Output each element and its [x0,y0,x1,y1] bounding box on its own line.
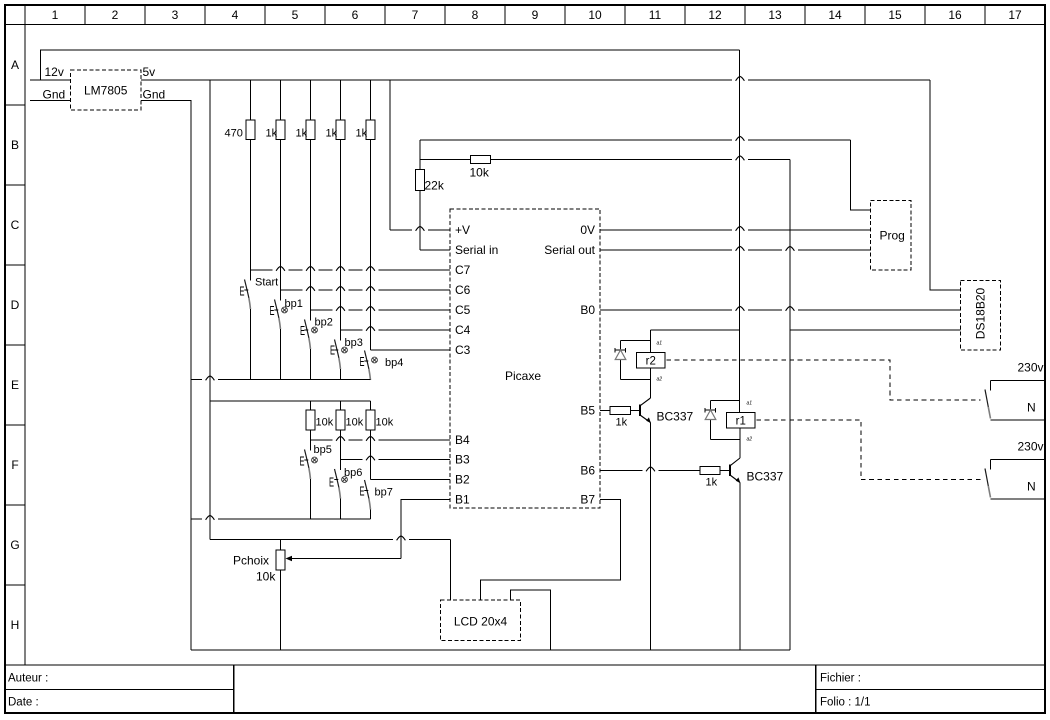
svg-text:10: 10 [588,8,602,22]
svg-text:230v: 230v [1018,361,1044,375]
wire B0 to DS18B20 [600,309,961,311]
svg-text:7: 7 [412,8,419,22]
svg-text:C: C [11,218,20,232]
wire 12v input [30,79,71,81]
wire 12v vertical bus [739,50,741,413]
svg-text:5v: 5v [143,65,156,79]
svg-text:+V: +V [455,223,470,237]
switch bp7 [360,480,393,519]
svg-text:1k: 1k [296,128,308,140]
svg-text:B0: B0 [580,303,595,317]
svg-text:LM7805: LM7805 [84,84,128,98]
svg-text:11: 11 [649,8,662,22]
svg-text:10k: 10k [470,166,490,180]
svg-text:Date :: Date : [8,697,39,709]
wire C4 net [341,329,451,331]
svg-text:14: 14 [828,8,842,22]
wire 10k to ground riser [491,156,791,650]
wire 5v feed to pull-down resistors [210,400,371,402]
svg-text:0V: 0V [580,223,595,237]
svg-text:E: E [270,303,275,318]
wire B4 net [311,439,451,441]
svg-text:BC337: BC337 [657,410,694,424]
diode D1 (flyback r1) [705,401,740,440]
connector Prog [871,201,912,271]
svg-text:Pchoix: Pchoix [233,554,269,568]
svg-text:E: E [360,354,365,369]
svg-text:1: 1 [52,8,59,22]
resistor R5 1k [356,80,376,350]
svg-text:A: A [11,58,19,72]
svg-text:13: 13 [768,8,782,22]
resistor R1 470 [225,80,256,270]
resistor R11 1k (Q1 base) [600,407,640,429]
svg-text:B1: B1 [455,493,470,507]
svg-text:DS18B20: DS18B20 [974,287,988,339]
wire mechanical link r1 to contact 2 (dashed) [757,420,981,480]
svg-text:Fichier :: Fichier : [820,673,861,685]
svg-text:bp6: bp6 [344,467,362,479]
wire 5v bus [141,76,961,290]
svg-text:B7: B7 [580,493,595,507]
svg-text:12: 12 [708,8,722,22]
resistor R12 1k (Q2 base) [600,467,730,489]
switch Start [240,270,279,380]
svg-text:6: 6 [352,8,359,22]
switch bp6 [329,460,362,520]
wire Q1 emitter to ground rail [650,423,652,651]
svg-text:Serial in: Serial in [455,243,498,257]
svg-text:1k: 1k [616,417,628,429]
transistor Q2 BC337 [730,458,784,484]
wire switch ground bus 2 [191,518,371,520]
wire Gnd from regulator to ground rail [141,101,191,651]
svg-text:B5: B5 [580,404,595,418]
resistor R4 1k [326,80,346,330]
diode D2 (flyback r2) [615,341,651,380]
relay r2 coil [637,353,666,369]
svg-text:bp5: bp5 [314,444,332,456]
svg-text:C7: C7 [455,263,471,277]
svg-text:230v: 230v [1018,440,1044,454]
wire serial network to Prog connector [420,136,871,210]
wire 12v to relay r2 [651,330,740,353]
svg-text:1k: 1k [706,477,718,489]
svg-text:Picaxe: Picaxe [505,369,541,383]
svg-text:F: F [11,458,18,472]
resistor R8 10k [366,401,394,480]
IC U2 Picaxe [450,209,600,508]
svg-text:C6: C6 [455,283,471,297]
svg-text:a1: a1 [657,341,663,347]
relay r1 coil [727,413,756,429]
svg-text:12v: 12v [45,65,64,79]
svg-text:Start: Start [255,277,278,289]
svg-text:a1: a1 [747,401,753,407]
svg-text:LCD 20x4: LCD 20x4 [454,615,508,629]
resistor R9 22k [416,140,445,250]
resistor R10 10k (serial) [420,156,491,180]
wire ground rail [191,649,790,651]
transistor Q1 BC337 [640,398,694,424]
wire r2 coil to Q1 collector [650,368,652,398]
svg-text:E: E [300,454,305,469]
svg-text:E: E [240,284,245,299]
potentiometer Pchoix 10k [233,540,401,651]
svg-text:B3: B3 [455,453,470,467]
switch bp1 [270,290,303,380]
svg-text:8: 8 [472,8,479,22]
svg-text:BC337: BC337 [747,470,784,484]
svg-text:470: 470 [225,128,243,140]
svg-text:1k: 1k [326,128,338,140]
wire C3 net [371,349,451,351]
svg-text:N: N [1027,480,1036,494]
svg-text:a2: a2 [747,437,753,443]
wire C6 net [281,289,451,291]
svg-text:B2: B2 [455,473,470,487]
wire ground to DS18B20 [790,329,961,331]
switch bp3 [330,330,363,380]
wire Serial out to Prog [600,249,871,251]
svg-text:B: B [11,138,19,152]
resistor R2 1k [266,80,286,290]
svg-text:B4: B4 [455,433,470,447]
svg-text:H: H [11,618,20,632]
svg-text:C4: C4 [455,323,471,337]
svg-text:1k: 1k [266,128,278,140]
wire 5v riser to pull-down bank and LCD [210,80,451,600]
resistor R3 1k [296,80,316,310]
svg-text:Gnd: Gnd [143,88,166,102]
sensor DS18B20 [961,281,1001,351]
svg-text:C5: C5 [455,303,471,317]
display LCD 20x4 [441,600,521,641]
svg-text:15: 15 [888,8,902,22]
wire 0V to Prog [600,229,871,231]
switch contact K1 (230v output 1) [985,381,1044,421]
svg-text:C3: C3 [455,343,471,357]
svg-text:a2: a2 [657,377,663,383]
wire C7 net [251,269,451,271]
switch contact K2 (230v output 2) [985,460,1044,500]
svg-text:16: 16 [948,8,962,22]
svg-text:D: D [11,298,20,312]
wire 12v top bus [30,50,740,80]
svg-text:10k: 10k [376,417,394,429]
resistor R6 10k [306,401,334,440]
svg-text:bp3: bp3 [345,337,363,349]
svg-text:10k: 10k [256,570,276,584]
svg-text:bp1: bp1 [285,298,303,310]
wire Q2 emitter to ground rail [739,483,741,651]
svg-text:E: E [329,475,334,490]
svg-text:bp7: bp7 [375,487,393,499]
wire mechanical link r2 to contact 1 (dashed) [667,360,981,400]
svg-text:4: 4 [232,8,239,22]
switch bp4 [360,351,404,381]
wire B7 to LCD [481,500,621,601]
wire B3 net [341,459,451,461]
switch bp2 [300,310,333,380]
switch bp5 [300,440,332,519]
wire Gnd input [30,100,71,102]
svg-text:3: 3 [172,8,179,22]
svg-text:Serial out: Serial out [544,243,595,257]
svg-text:5: 5 [292,8,299,22]
pin ticks Picaxe left [444,230,451,500]
wire B1 to potentiometer wiper [401,500,450,559]
svg-text:10k: 10k [346,417,364,429]
svg-text:E: E [11,378,19,392]
svg-text:22k: 22k [425,179,445,193]
wire 5v to +V pin [390,80,450,231]
svg-text:bp4: bp4 [385,357,403,369]
wire switch ground bus 1 [191,379,371,381]
wire LCD to ground rail [511,590,551,650]
svg-text:9: 9 [532,8,539,22]
pin ticks Picaxe right [600,230,607,500]
svg-text:17: 17 [1008,8,1022,22]
svg-text:E: E [360,484,365,499]
svg-text:Auteur :: Auteur : [8,673,48,685]
svg-text:1k: 1k [356,128,368,140]
svg-text:Prog: Prog [880,229,905,243]
svg-text:10k: 10k [316,417,334,429]
resistor R7 10k [336,401,364,460]
svg-text:r1: r1 [736,416,746,428]
svg-text:Folio : 1/1: Folio : 1/1 [820,697,871,709]
svg-text:N: N [1027,401,1036,415]
svg-text:B6: B6 [580,464,595,478]
svg-text:bp2: bp2 [315,317,333,329]
svg-text:Gnd: Gnd [43,88,66,102]
wire B2 net [371,479,451,481]
regulator U1 LM7805 [71,70,142,110]
wire C5 net [311,309,451,311]
wire r1 coil to Q2 collector [739,428,741,458]
svg-text:2: 2 [112,8,119,22]
wire Serial in pin [420,249,450,251]
svg-text:r2: r2 [646,356,656,368]
svg-text:G: G [10,538,19,552]
